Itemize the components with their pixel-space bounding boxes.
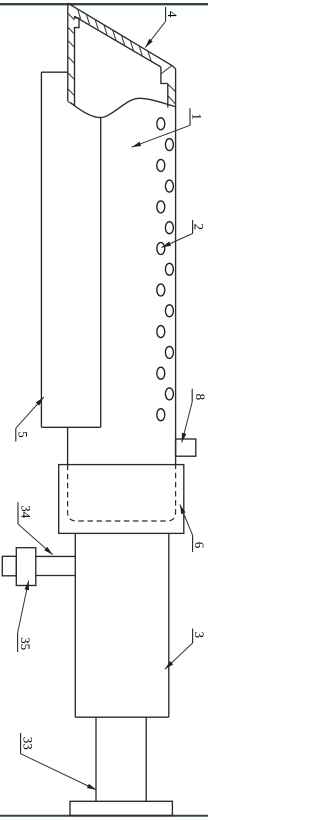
svg-text:5: 5 [16, 431, 31, 438]
inner tube line [100, 118, 102, 428]
label 3 text [192, 629, 194, 643]
pedestal left edge [95, 717, 97, 801]
lower connector to collar [67, 427, 69, 464]
hatching of left wall [68, 13, 75, 96]
label 6 text [192, 535, 194, 552]
label 3 leader [165, 643, 193, 669]
label 8 text [191, 389, 193, 402]
hatching of slanted wall [78, 9, 152, 61]
label 33 text [20, 733, 22, 754]
hopper left wall inner line [75, 16, 80, 106]
svg-text:34: 34 [18, 505, 33, 519]
label 33 leader [21, 754, 97, 790]
body right edge [175, 69, 177, 465]
label 5 leader [16, 397, 44, 428]
label 34 leader [18, 524, 53, 555]
label 35 text [17, 633, 19, 652]
svg-text:4: 4 [165, 11, 180, 18]
column left edge [74, 533, 76, 717]
end cap [2, 556, 16, 576]
label 2 text [192, 220, 194, 234]
svg-text:1: 1 [190, 113, 205, 120]
hopper top slanted wall outer edge [68, 3, 176, 69]
svg-text:33: 33 [20, 737, 35, 750]
label 34 text [17, 502, 19, 524]
jacket bottom line [41, 426, 100, 428]
body top connector line [41, 71, 67, 73]
body outer left edge (5 jacket) [40, 72, 42, 427]
perforation holes column [157, 118, 174, 421]
svg-text:6: 6 [192, 542, 207, 549]
svg-text:8: 8 [193, 394, 208, 401]
break wavy curve [71, 98, 176, 117]
pedestal right edge [145, 717, 147, 801]
label 1 text [189, 108, 191, 125]
hopper right-end notch [161, 67, 168, 84]
collar outer box [59, 465, 184, 534]
label 1 leader [132, 125, 191, 147]
label 5 text [15, 428, 17, 441]
label 35 leader [18, 581, 29, 633]
ground baseline [0, 815, 208, 817]
svg-text:3: 3 [192, 632, 207, 639]
top page border line [0, 3, 208, 5]
valve flange 35 [16, 548, 36, 586]
label 4 text [165, 7, 167, 21]
label 2 leader [162, 234, 193, 248]
svg-text:2: 2 [192, 224, 207, 231]
column right edge [168, 533, 170, 717]
hopper top slanted wall inner edge [75, 16, 161, 67]
hidden seat dashed outline 6 [68, 465, 176, 521]
base plate 33 [70, 801, 172, 815]
hopper left wall outer line [67, 3, 69, 101]
label 4 leader [145, 21, 165, 47]
label 8 leader [182, 402, 192, 443]
column bottom line [75, 716, 169, 718]
outlet box 8 [176, 439, 196, 456]
hopper left wall bottom closure [68, 101, 75, 106]
svg-text:35: 35 [18, 637, 33, 650]
inlet pipe 34 [36, 556, 76, 575]
hopper right wall inner line [167, 84, 169, 108]
hatching of right wall and notch [162, 66, 176, 104]
label 6 leader [180, 505, 193, 536]
